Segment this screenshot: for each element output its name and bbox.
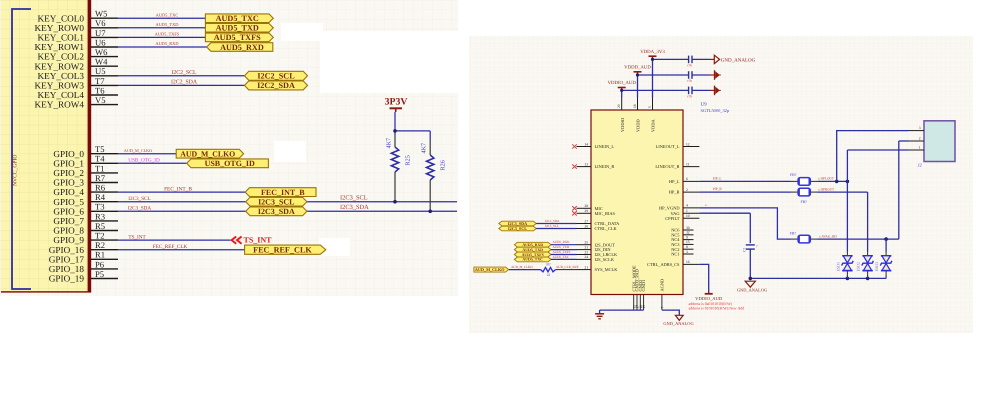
svg-text:AUD5_RXD: AUD5_RXD bbox=[522, 243, 543, 247]
svg-text:U6: U6 bbox=[95, 37, 106, 47]
svg-text:SYS_MCLK: SYS_MCLK bbox=[595, 267, 619, 272]
svg-text:GND_ANALOG: GND_ANALOG bbox=[737, 288, 768, 293]
svg-text:3: 3 bbox=[686, 250, 688, 254]
svg-text:VDDIO: VDDIO bbox=[620, 118, 625, 132]
svg-text:AUD5_TXD: AUD5_TXD bbox=[156, 22, 179, 27]
svg-text:USB_OTG_ID: USB_OTG_ID bbox=[128, 158, 160, 164]
svg-text:V6: V6 bbox=[95, 18, 106, 28]
svg-text:31: 31 bbox=[584, 245, 588, 249]
svg-text:FB?: FB? bbox=[790, 173, 797, 177]
svg-text:USB_OTG_ID: USB_OTG_ID bbox=[205, 159, 255, 168]
svg-text:GPIO_6: GPIO_6 bbox=[53, 206, 84, 216]
svg-text:KEY_ROW3: KEY_ROW3 bbox=[34, 81, 84, 91]
svg-text:NVCC_GPIO: NVCC_GPIO bbox=[13, 155, 19, 186]
svg-text:I2C2_SDA: I2C2_SDA bbox=[257, 81, 295, 90]
svg-text:HP_L: HP_L bbox=[713, 176, 722, 180]
svg-text:GPIO_19: GPIO_19 bbox=[49, 274, 85, 284]
svg-text:4: 4 bbox=[686, 204, 688, 208]
svg-text:29: 29 bbox=[584, 209, 588, 213]
svg-text:KEY_ROW2: KEY_ROW2 bbox=[34, 61, 84, 71]
svg-text:HP_R: HP_R bbox=[669, 190, 680, 195]
svg-text:LINEOUT_L: LINEOUT_L bbox=[656, 144, 680, 149]
svg-text:AUD_M_CLKO: AUD_M_CLKO bbox=[511, 265, 533, 269]
svg-text:AUD_M_CLKO: AUD_M_CLKO bbox=[124, 148, 152, 153]
svg-text:KEY_COL2: KEY_COL2 bbox=[38, 52, 85, 62]
svg-text:W4: W4 bbox=[95, 57, 108, 67]
svg-text:AUD5_TXC: AUD5_TXC bbox=[156, 12, 179, 17]
svg-text:HP_VGND: HP_VGND bbox=[659, 206, 680, 211]
svg-text:15: 15 bbox=[686, 240, 690, 244]
svg-text:I2C3_SDA: I2C3_SDA bbox=[128, 206, 152, 212]
svg-text:AUD5_TXD: AUD5_TXD bbox=[216, 24, 259, 33]
svg-text:R?: R? bbox=[546, 263, 551, 267]
svg-text:AUD5_RXD: AUD5_RXD bbox=[155, 41, 178, 46]
svg-text:T4: T4 bbox=[95, 154, 105, 164]
svg-text:AUD_CLK_BUF: AUD_CLK_BUF bbox=[556, 265, 579, 269]
svg-text:R4: R4 bbox=[95, 192, 106, 202]
svg-text:FEC_INT_B: FEC_INT_B bbox=[164, 186, 192, 192]
svg-text:c?b: c?b bbox=[687, 79, 692, 83]
svg-text:6: 6 bbox=[686, 177, 688, 181]
svg-text:2: 2 bbox=[686, 188, 688, 192]
svg-text:I2C3_SCL: I2C3_SCL bbox=[545, 224, 559, 228]
svg-text:TS_INT: TS_INT bbox=[128, 234, 146, 240]
svg-text:28: 28 bbox=[584, 204, 588, 208]
svg-text:NC1: NC1 bbox=[671, 252, 679, 257]
svg-text:CTRL_ADR0_CS: CTRL_ADR0_CS bbox=[647, 262, 680, 267]
svg-text:R1: R1 bbox=[95, 250, 105, 260]
svg-text:I2C3_SCL: I2C3_SCL bbox=[128, 196, 150, 202]
svg-text:2: 2 bbox=[919, 136, 921, 140]
svg-text:KEY_ROW1: KEY_ROW1 bbox=[34, 42, 84, 52]
svg-text:AUD5_TXD: AUD5_TXD bbox=[522, 248, 543, 252]
svg-text:R2: R2 bbox=[95, 240, 105, 250]
svg-text:R26: R26 bbox=[440, 160, 447, 170]
svg-text:LINEIN_R: LINEIN_R bbox=[595, 164, 615, 169]
svg-text:1: 1 bbox=[686, 209, 688, 213]
svg-text:KEY_COL0: KEY_COL0 bbox=[38, 13, 85, 23]
svg-text:AUD5_TXC: AUD5_TXC bbox=[522, 258, 543, 262]
svg-text:3P3V: 3P3V bbox=[385, 97, 408, 108]
svg-text:AUD5_RXD: AUD5_RXD bbox=[553, 240, 571, 244]
svg-text:3: 3 bbox=[919, 126, 921, 130]
svg-text:GND_ANALOG: GND_ANALOG bbox=[663, 321, 694, 326]
svg-text:x: x bbox=[705, 203, 707, 207]
svg-text:1: 1 bbox=[919, 145, 921, 149]
svg-text:U9: U9 bbox=[701, 102, 708, 108]
svg-text:21: 21 bbox=[584, 265, 588, 269]
svg-text:GPIO_16: GPIO_16 bbox=[49, 245, 85, 255]
svg-text:CTRL_CLK: CTRL_CLK bbox=[595, 226, 618, 231]
svg-text:U7: U7 bbox=[95, 28, 106, 38]
svg-text:FEC_REF_CLK: FEC_REF_CLK bbox=[253, 245, 312, 254]
svg-text:4K7: 4K7 bbox=[386, 138, 393, 149]
svg-text:AGND: AGND bbox=[660, 279, 665, 292]
svg-text:SGTL5000_32p: SGTL5000_32p bbox=[701, 108, 730, 113]
svg-text:I2C3_SDA: I2C3_SDA bbox=[340, 204, 369, 211]
svg-text:FEC_INT_B: FEC_INT_B bbox=[261, 188, 305, 197]
svg-text:R6: R6 bbox=[95, 183, 106, 193]
svg-text:I2C2_SCL: I2C2_SCL bbox=[171, 70, 197, 76]
svg-text:I2C3_SCL: I2C3_SCL bbox=[508, 226, 527, 231]
svg-text:R5: R5 bbox=[95, 221, 105, 231]
svg-text:LINEIN_L: LINEIN_L bbox=[595, 144, 615, 149]
svg-text:R7: R7 bbox=[95, 173, 106, 183]
svg-text:7: 7 bbox=[661, 307, 665, 309]
svg-text:I2S_SCLK: I2S_SCLK bbox=[595, 257, 615, 262]
svg-text:GND_ANALOG: GND_ANALOG bbox=[721, 57, 756, 63]
svg-text:VDDIO_AUD: VDDIO_AUD bbox=[608, 80, 637, 86]
svg-text:VDDD: VDDD bbox=[636, 119, 641, 132]
svg-text:AUD5_TXFS: AUD5_TXFS bbox=[522, 253, 544, 257]
svg-text:8: 8 bbox=[686, 245, 688, 249]
svg-text:T5: T5 bbox=[95, 144, 105, 154]
svg-text:AUD5_TXC: AUD5_TXC bbox=[216, 14, 259, 23]
svg-text:x AVAG_BD: x AVAG_BD bbox=[819, 234, 837, 238]
svg-text:T1: T1 bbox=[95, 163, 105, 173]
svg-text:I2C3_SCL: I2C3_SCL bbox=[258, 197, 294, 206]
svg-text:23: 23 bbox=[584, 250, 588, 254]
svg-text:VDDA_3V3: VDDA_3V3 bbox=[640, 49, 665, 55]
svg-text:c?b: c?b bbox=[687, 94, 692, 98]
svg-text:KEY_COL1: KEY_COL1 bbox=[38, 33, 85, 43]
svg-text:12: 12 bbox=[686, 142, 690, 146]
svg-text:P6: P6 bbox=[95, 259, 105, 269]
svg-text:ESD1: ESD1 bbox=[835, 262, 840, 272]
svg-text:I2C3_SCL: I2C3_SCL bbox=[340, 195, 368, 202]
svg-text:GPIO_9: GPIO_9 bbox=[53, 235, 84, 245]
svg-text:4K7: 4K7 bbox=[421, 143, 428, 154]
svg-text:x HPLOUT: x HPLOUT bbox=[818, 177, 835, 181]
svg-text:AUD_M_CLKO: AUD_M_CLKO bbox=[475, 267, 505, 272]
svg-text:GPIO_0: GPIO_0 bbox=[53, 149, 84, 159]
svg-text:GPIO_2: GPIO_2 bbox=[53, 168, 84, 178]
svg-text:ESD3: ESD3 bbox=[874, 262, 879, 272]
svg-text:10: 10 bbox=[686, 214, 690, 218]
svg-text:V5: V5 bbox=[95, 95, 106, 105]
svg-text:KEY_COL4: KEY_COL4 bbox=[38, 90, 85, 100]
svg-text:11: 11 bbox=[686, 162, 690, 166]
svg-text:AUD5_TXFS: AUD5_TXFS bbox=[214, 33, 261, 42]
svg-text:HP_R: HP_R bbox=[713, 187, 722, 191]
svg-text:VDDIO_AUD: VDDIO_AUD bbox=[695, 296, 723, 301]
svg-text:T2: T2 bbox=[95, 231, 105, 241]
svg-text:VDDA: VDDA bbox=[651, 118, 656, 132]
svg-text:MIC_BIAS: MIC_BIAS bbox=[595, 211, 616, 216]
svg-text:W5: W5 bbox=[95, 9, 107, 19]
svg-text:FEC_REF_CLK: FEC_REF_CLK bbox=[153, 244, 188, 250]
svg-text:W6: W6 bbox=[95, 47, 108, 57]
svg-text:19: 19 bbox=[642, 305, 646, 309]
svg-text:FB?: FB? bbox=[801, 200, 808, 204]
svg-text:P5: P5 bbox=[95, 269, 104, 279]
svg-text:18: 18 bbox=[633, 104, 637, 108]
svg-text:I2C3_SDA: I2C3_SDA bbox=[258, 207, 295, 216]
svg-text:AUD5_RXD: AUD5_RXD bbox=[220, 43, 264, 52]
svg-text:CPFILT: CPFILT bbox=[665, 216, 680, 221]
svg-text:AUD5_TXFS: AUD5_TXFS bbox=[155, 32, 180, 37]
svg-text:14: 14 bbox=[584, 142, 588, 146]
svg-text:AUD5_TXFS: AUD5_TXFS bbox=[553, 250, 571, 254]
svg-text:R25: R25 bbox=[405, 155, 412, 165]
svg-text:HP_L: HP_L bbox=[669, 179, 680, 184]
svg-text:I2C2_SCL: I2C2_SCL bbox=[257, 72, 295, 81]
svg-text:T7: T7 bbox=[95, 76, 105, 86]
svg-text:25: 25 bbox=[584, 241, 588, 245]
svg-text:5: 5 bbox=[648, 106, 652, 108]
svg-text:GND1: GND1 bbox=[641, 280, 646, 292]
svg-text:20: 20 bbox=[617, 104, 621, 108]
svg-text:I2C3_SDA: I2C3_SDA bbox=[545, 219, 560, 223]
svg-text:26: 26 bbox=[584, 224, 588, 228]
svg-text:GPIO_3: GPIO_3 bbox=[53, 178, 84, 188]
svg-text:GPIO_5: GPIO_5 bbox=[53, 197, 84, 207]
svg-text:AUD5_TXD: AUD5_TXD bbox=[553, 245, 570, 249]
svg-text:T6: T6 bbox=[95, 85, 105, 95]
svg-text:R3: R3 bbox=[95, 211, 105, 221]
svg-text:ESD2: ESD2 bbox=[856, 262, 861, 272]
svg-text:KEY_ROW4: KEY_ROW4 bbox=[34, 100, 84, 110]
svg-text:16: 16 bbox=[686, 260, 690, 264]
svg-text:KEY_COL3: KEY_COL3 bbox=[38, 71, 85, 81]
svg-text:GPIO_1: GPIO_1 bbox=[53, 158, 84, 168]
svg-text:24: 24 bbox=[584, 255, 588, 259]
svg-text:c?b: c?b bbox=[687, 63, 692, 67]
svg-text:GPIO_18: GPIO_18 bbox=[49, 264, 85, 274]
svg-text:13: 13 bbox=[584, 162, 588, 166]
svg-text:I2C2_SDA: I2C2_SDA bbox=[171, 80, 198, 86]
svg-text:AUD_M_CLKO: AUD_M_CLKO bbox=[180, 149, 235, 158]
svg-text:GPIO_17: GPIO_17 bbox=[49, 254, 85, 264]
svg-text:27: 27 bbox=[584, 219, 588, 223]
svg-text:22: 22 bbox=[547, 273, 551, 277]
svg-text:GPIO_8: GPIO_8 bbox=[53, 226, 84, 236]
svg-text:KEY_ROW0: KEY_ROW0 bbox=[34, 23, 84, 33]
svg-text:VDDD_AUD: VDDD_AUD bbox=[624, 64, 651, 70]
svg-text:T3: T3 bbox=[95, 202, 105, 212]
svg-text:GPIO_7: GPIO_7 bbox=[53, 216, 84, 226]
svg-text:AUD5_TXC: AUD5_TXC bbox=[553, 255, 569, 259]
svg-text:32: 32 bbox=[686, 231, 690, 235]
svg-text:30: 30 bbox=[686, 226, 690, 230]
svg-text:U5: U5 bbox=[95, 66, 106, 76]
svg-text:TS_INT: TS_INT bbox=[244, 236, 273, 245]
svg-text:9: 9 bbox=[686, 235, 688, 239]
svg-text:C?: C? bbox=[743, 247, 747, 252]
svg-text:address is 0101010(R/W):New Ad: address is 0101010(R/W):New Add bbox=[689, 306, 745, 310]
svg-text:GPIO_4: GPIO_4 bbox=[53, 187, 84, 197]
svg-text:FB?: FB? bbox=[790, 231, 797, 235]
svg-text:x HPROUT: x HPROUT bbox=[818, 187, 835, 191]
svg-text:LINEOUT_R: LINEOUT_R bbox=[655, 164, 679, 169]
